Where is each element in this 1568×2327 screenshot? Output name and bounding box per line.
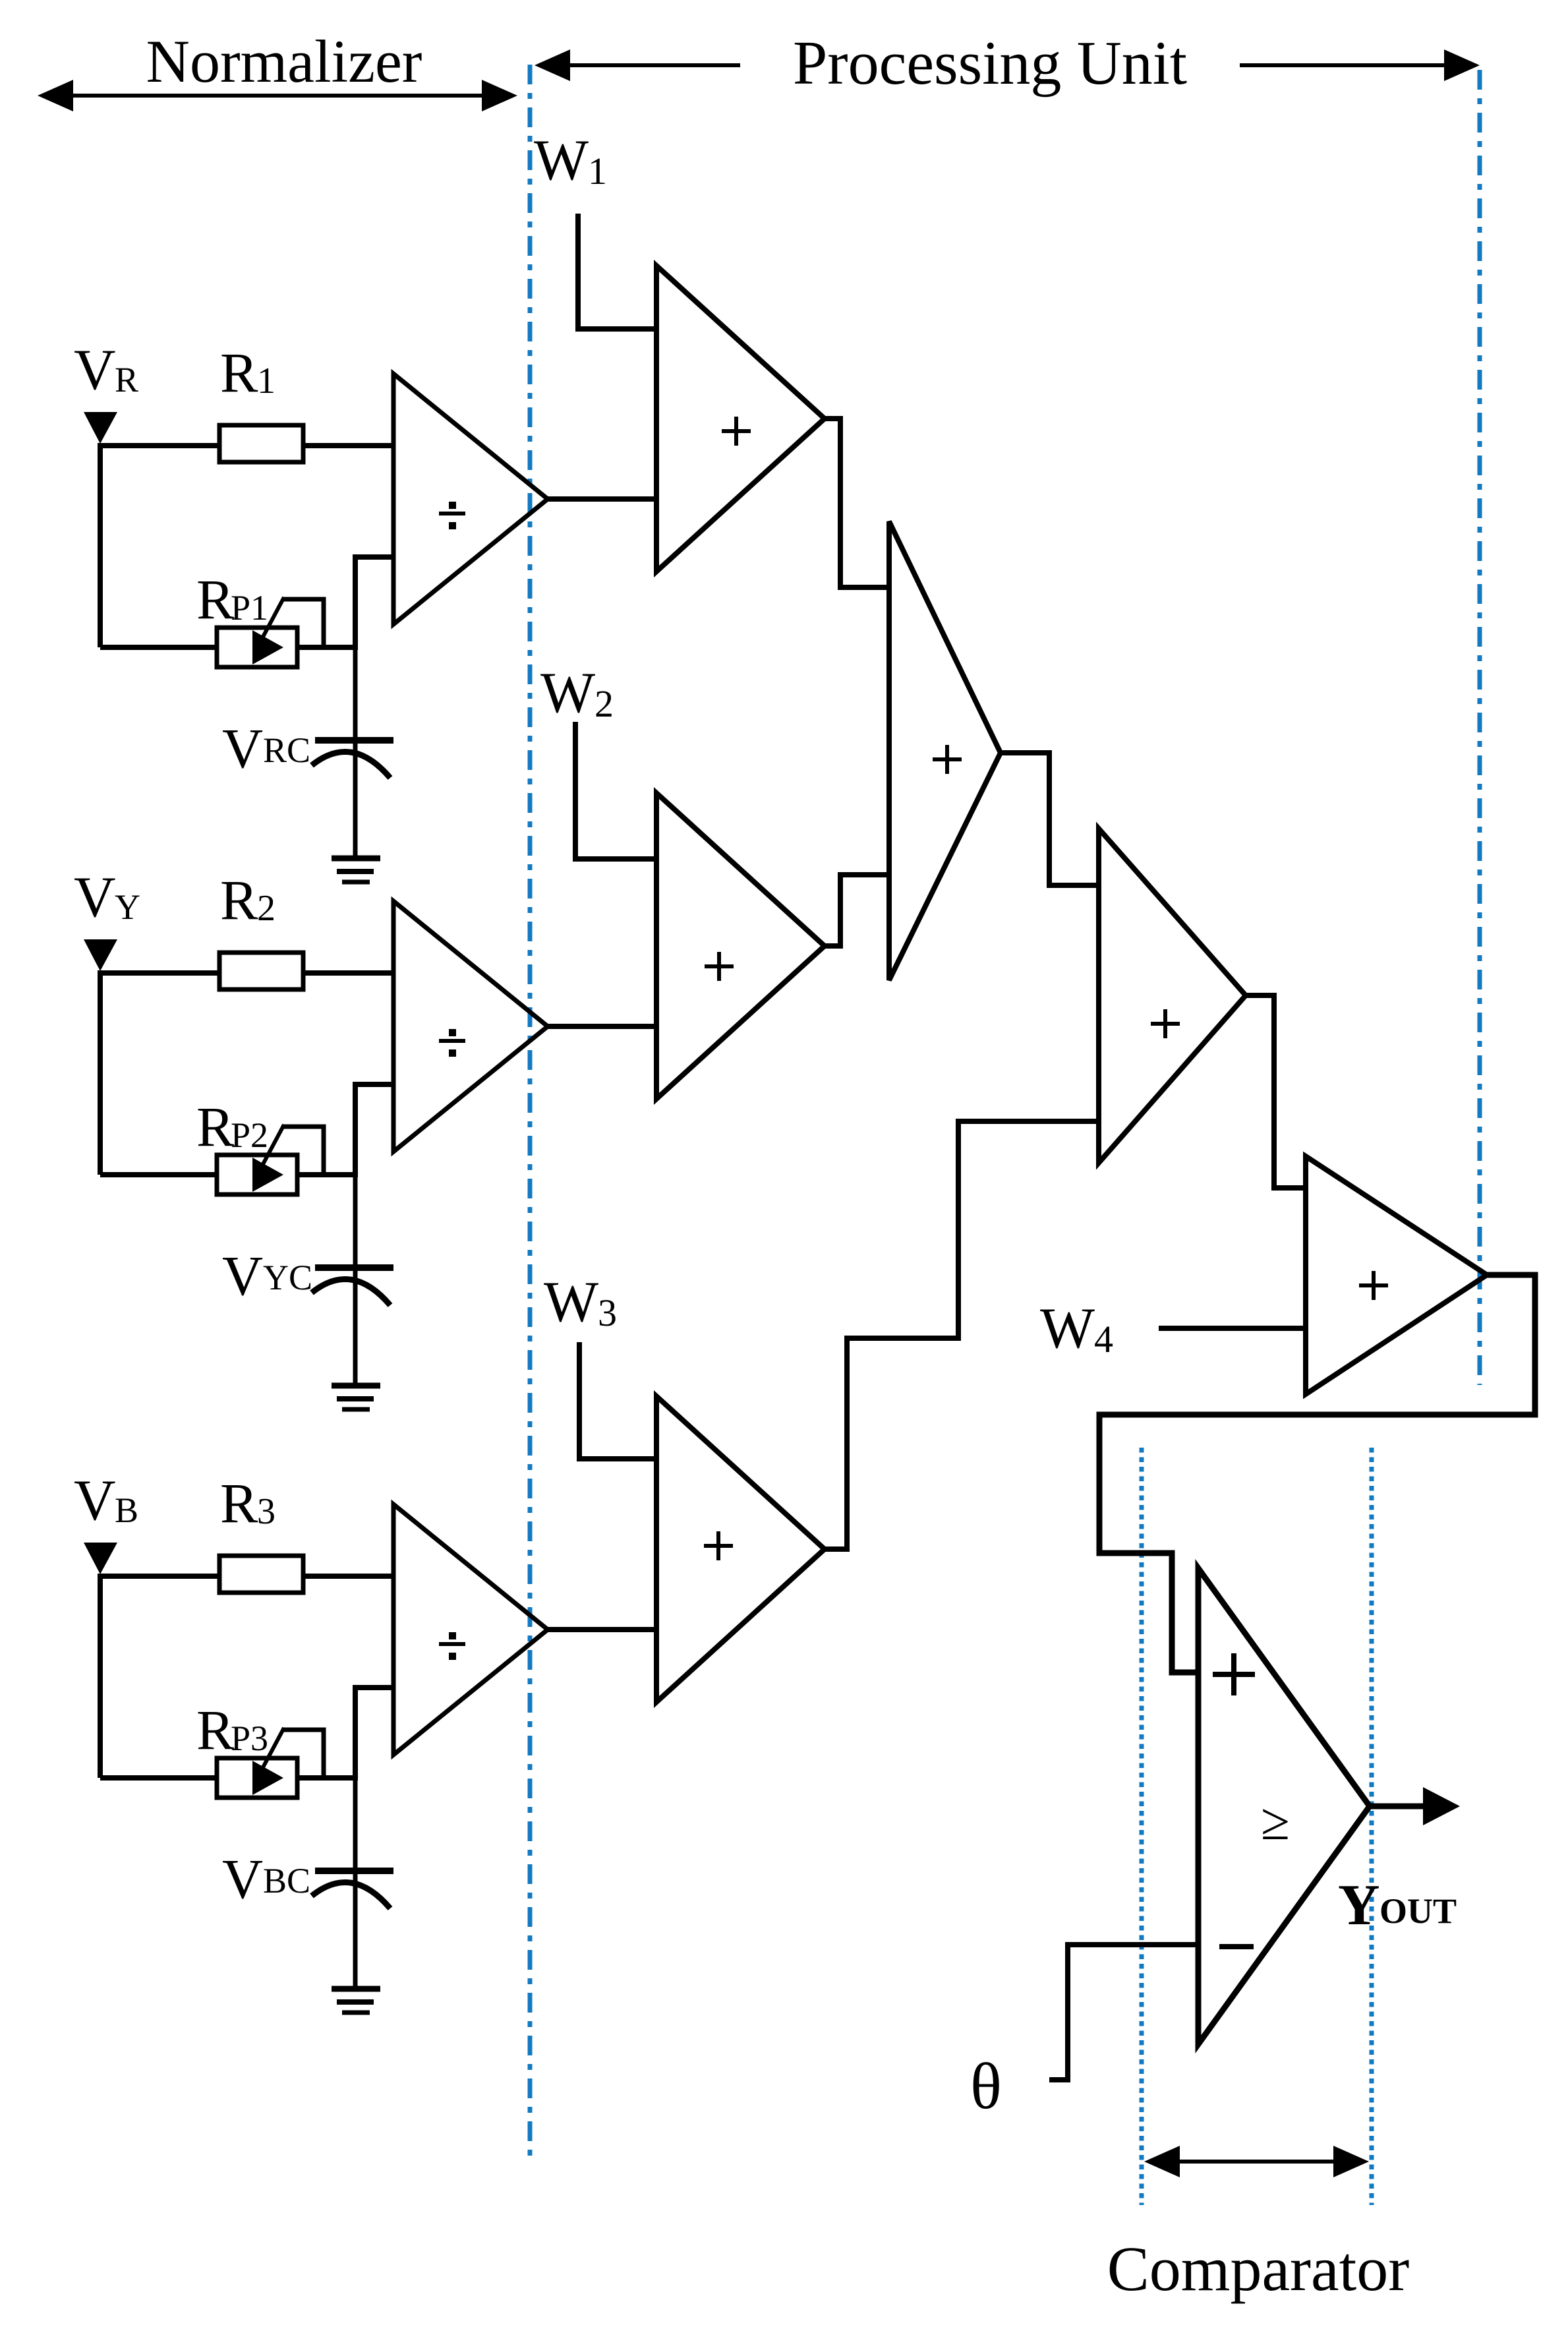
svg-text:W: W <box>1040 1297 1095 1361</box>
comparator U9 <box>1198 1568 1370 2044</box>
potentiometer RP1 <box>217 628 297 667</box>
svg-text:Comparator: Comparator <box>1107 2233 1410 2304</box>
wire S2 output to op-amp M <box>825 875 889 946</box>
svg-text:R: R <box>115 360 138 399</box>
RP1 wiper arrow <box>252 630 283 664</box>
wire VB to R3 and divider U3 <box>100 1574 393 1579</box>
op-amp S2 (summing) <box>656 793 825 1099</box>
potentiometer RP2 <box>217 1155 297 1194</box>
wire divider U1 output to op-amp S1 <box>548 496 656 502</box>
ground (stage 3) <box>332 1986 380 1992</box>
wire lower rail to RP2 <box>100 1172 354 1177</box>
svg-text:B: B <box>115 1490 138 1530</box>
svg-text:R: R <box>196 1095 235 1158</box>
capacitor VYC curved plate <box>312 1279 390 1305</box>
svg-text:BC: BC <box>263 1861 310 1900</box>
svg-text:V: V <box>222 717 263 780</box>
op-amp M (summing, middle) <box>889 521 1001 980</box>
feedback wire to divider U2 lower input <box>355 1084 392 1177</box>
divider U1 <box>393 374 548 624</box>
right boundary line of Processing Unit (blue dash-dot) <box>1478 70 1482 1385</box>
S3 plus symbol <box>704 1544 733 1548</box>
feedback wire to divider U1 lower input <box>355 557 392 650</box>
op-amp S3 (summing) <box>656 1396 825 1702</box>
svg-text:YC: YC <box>263 1258 312 1297</box>
svg-text:R: R <box>220 1471 258 1535</box>
svg-text:V: V <box>74 1469 116 1533</box>
ground (stage 2) <box>332 1383 380 1389</box>
RP2 wiper arrow <box>252 1158 283 1192</box>
ground (stage 1) <box>332 856 380 862</box>
V plus symbol <box>1359 1283 1388 1287</box>
wire W2 to op-amp S2 <box>575 722 656 859</box>
comparator minus input symbol <box>1219 1944 1254 1949</box>
svg-text:≥: ≥ <box>1261 1793 1290 1851</box>
comparator plus input symbol <box>1213 1672 1255 1677</box>
Normalizer span arrow (double-headed) <box>46 94 509 98</box>
svg-text:Y: Y <box>115 887 140 927</box>
svg-text:RC: RC <box>263 730 310 770</box>
S1 plus symbol <box>722 429 751 433</box>
svg-text:Y: Y <box>1338 1873 1380 1937</box>
svg-text:W: W <box>540 661 595 725</box>
svg-text:V: V <box>74 866 116 929</box>
wire junction to capacitor VYC <box>353 1175 358 1384</box>
svg-text:R: R <box>196 1698 235 1761</box>
svg-text:3: 3 <box>257 1491 276 1532</box>
wire junction to capacitor VRC <box>353 647 358 856</box>
RP3 wiper arrow <box>252 1761 283 1795</box>
comparator left dotted guide line (blue) <box>1140 1448 1144 2205</box>
svg-text:W: W <box>534 129 589 192</box>
input terminal VB (arrow) <box>84 1543 117 1574</box>
capacitor VBC curved plate <box>312 1882 390 1908</box>
comparator span arrow (double-headed) <box>1152 2160 1361 2164</box>
resistor R3 <box>219 1556 303 1593</box>
feedback wire to divider U3 lower input <box>355 1688 392 1781</box>
svg-text:V: V <box>222 1244 263 1307</box>
comparator right dotted guide line (blue) <box>1370 1448 1374 2205</box>
Processing Unit right arrow <box>1240 63 1471 67</box>
svg-text:R: R <box>220 868 258 931</box>
U2 divide symbol <box>439 1039 465 1043</box>
resistor R1 <box>219 425 303 462</box>
svg-text:2: 2 <box>257 888 276 929</box>
svg-text:3: 3 <box>598 1291 617 1334</box>
wire T output to op-amp V <box>1246 995 1306 1188</box>
resistor R2 <box>219 953 303 989</box>
wire VR to R1 and divider U1 <box>100 443 393 448</box>
potentiometer RP3 <box>217 1758 297 1798</box>
U3 divide symbol <box>439 1642 465 1646</box>
S2 plus symbol <box>705 964 734 968</box>
wire W1 to op-amp S1 <box>578 214 656 329</box>
op-amp S1 (summing) <box>656 266 825 572</box>
svg-text:R: R <box>220 341 258 404</box>
output arrow YOUT <box>1370 1804 1429 1810</box>
wire VB down to RP3 <box>98 1574 103 1778</box>
svg-text:P1: P1 <box>231 588 268 628</box>
wire divider U3 output to op-amp S3 <box>548 1627 656 1632</box>
RP3 wiper hook wire <box>282 1730 324 1778</box>
wire lower rail to RP1 <box>100 645 354 650</box>
U1 divide symbol <box>439 512 465 515</box>
svg-text:1: 1 <box>257 361 276 401</box>
svg-text:V: V <box>74 338 116 402</box>
T plus symbol <box>1151 1022 1180 1026</box>
RP2 wiper hook wire <box>282 1127 324 1175</box>
wire S3 output to op-amp T <box>825 1121 1099 1549</box>
wire VR down to RP1 <box>98 443 103 647</box>
wire divider U2 output to op-amp S2 <box>548 1024 656 1029</box>
svg-text:W: W <box>544 1270 598 1334</box>
capacitor VBC top plate <box>315 1868 393 1874</box>
wire VY down to RP2 <box>98 970 103 1175</box>
wire W4 to op-amp V <box>1159 1326 1306 1331</box>
svg-text:4: 4 <box>1094 1318 1113 1361</box>
svg-text:2: 2 <box>595 682 614 725</box>
wire lower rail to RP3 <box>100 1775 354 1781</box>
wire S1 output to op-amp M <box>825 419 889 587</box>
divider U3 <box>393 1504 548 1755</box>
capacitor VRC top plate <box>315 737 393 744</box>
wire W3 to op-amp S3 <box>579 1342 656 1459</box>
svg-text:Normalizer: Normalizer <box>146 28 422 95</box>
M plus symbol <box>933 757 962 761</box>
wire junction to capacitor VBC <box>353 1778 358 1987</box>
svg-text:1: 1 <box>588 150 607 192</box>
wire V output to comparator plus input <box>1099 1275 1535 1672</box>
svg-text:OUT: OUT <box>1379 1891 1457 1931</box>
wire M output to op-amp T <box>1001 753 1099 885</box>
op-amp V (summing, fourth level) <box>1306 1156 1487 1394</box>
Processing Unit left arrow <box>543 63 740 67</box>
input terminal VR (arrow) <box>84 412 117 444</box>
boundary line between Normalizer and Processing Unit (blue dash-dot) <box>528 65 533 2162</box>
svg-text:P3: P3 <box>231 1719 268 1758</box>
svg-text:θ: θ <box>970 2049 1002 2123</box>
capacitor VYC top plate <box>315 1264 393 1271</box>
svg-text:Processing Unit: Processing Unit <box>793 29 1187 98</box>
svg-text:R: R <box>196 568 235 631</box>
op-amp T (summing, third level) <box>1099 829 1246 1163</box>
wire VY to R2 and divider U2 <box>100 970 393 976</box>
input terminal VY (arrow) <box>84 939 117 971</box>
svg-text:P2: P2 <box>231 1115 268 1155</box>
divider U2 <box>393 901 548 1152</box>
wire theta to comparator minus input <box>1049 1945 1198 2080</box>
RP1 wiper hook wire <box>282 599 324 647</box>
capacitor VRC curved plate <box>312 751 390 778</box>
svg-text:V: V <box>222 1847 263 1910</box>
